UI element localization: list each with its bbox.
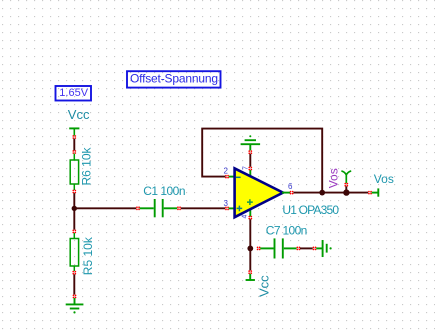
capacitor C1 <box>136 199 181 217</box>
junction node <box>72 206 77 211</box>
test point symbol <box>341 171 351 183</box>
wire <box>293 192 344 194</box>
wire feedback loop <box>202 129 322 191</box>
svg-text:R6 10k: R6 10k <box>80 146 94 185</box>
power symbol Vcc top <box>69 128 79 135</box>
wire <box>249 154 251 167</box>
resistor R5 <box>70 233 78 271</box>
pin 2 lead <box>229 176 235 178</box>
svg-text:R5 10k: R5 10k <box>81 236 95 275</box>
power symbol Vcc bottom <box>246 274 255 280</box>
wire <box>76 207 136 209</box>
wire <box>345 186 347 191</box>
svg-text:Offset-Spannung: Offset-Spannung <box>130 72 218 86</box>
junction marker <box>72 230 76 234</box>
resistor R6 <box>70 154 78 190</box>
svg-text:4: 4 <box>242 215 249 219</box>
op-amp U1 OPA350 <box>235 168 283 217</box>
junction marker <box>313 247 317 251</box>
wire <box>73 211 75 230</box>
junction marker pin 6 <box>290 191 294 195</box>
junction marker <box>72 150 76 154</box>
junction marker <box>73 295 77 299</box>
junction marker <box>248 150 252 154</box>
junction marker <box>344 183 348 187</box>
svg-text:6: 6 <box>288 182 293 191</box>
svg-text:U1 OPA350: U1 OPA350 <box>282 203 339 217</box>
op-amp U1 supply pin top <box>249 170 251 177</box>
op-amp U1 supply pin bottom <box>249 208 251 216</box>
junction marker pin 3 <box>225 207 229 211</box>
wire <box>249 251 251 271</box>
svg-text:3: 3 <box>224 199 229 208</box>
pin 6 lead <box>282 192 290 194</box>
wire <box>181 207 225 209</box>
wire <box>73 274 75 294</box>
svg-text:C1 100n: C1 100n <box>143 184 185 198</box>
svg-text:C7 100n: C7 100n <box>266 223 308 237</box>
svg-text:Vos: Vos <box>374 172 394 186</box>
wire <box>300 247 313 249</box>
junction marker <box>72 135 76 139</box>
pin 3 lead <box>229 207 235 209</box>
ground symbol (inverted, above op-amp) <box>241 135 261 150</box>
label Offset-Spannung <box>127 71 221 87</box>
junction node <box>319 190 325 196</box>
junction node <box>247 246 253 252</box>
wire <box>349 192 368 194</box>
wire <box>249 219 251 246</box>
junction marker (op-amp V- pin) <box>248 216 252 220</box>
wire label box 1.65V <box>56 86 92 101</box>
junction marker <box>248 270 252 274</box>
open pin terminal <box>372 188 379 196</box>
svg-text:7: 7 <box>242 166 249 170</box>
wire <box>73 193 75 206</box>
capacitor C7 <box>257 238 301 258</box>
junction marker <box>248 167 252 171</box>
junction marker <box>72 271 76 275</box>
svg-text:2: 2 <box>224 167 229 176</box>
svg-text:1.65V: 1.65V <box>59 87 88 99</box>
ground symbol <box>66 298 84 314</box>
junction node <box>343 189 349 195</box>
junction marker pin 2 <box>225 175 229 179</box>
svg-text:Vos: Vos <box>327 168 341 188</box>
ground symbol (rotated right) <box>316 240 332 257</box>
svg-text:Vcc: Vcc <box>256 275 271 297</box>
junction marker <box>368 191 372 195</box>
junction marker <box>72 190 76 194</box>
svg-text:Vcc: Vcc <box>68 107 90 122</box>
wire <box>73 139 75 151</box>
